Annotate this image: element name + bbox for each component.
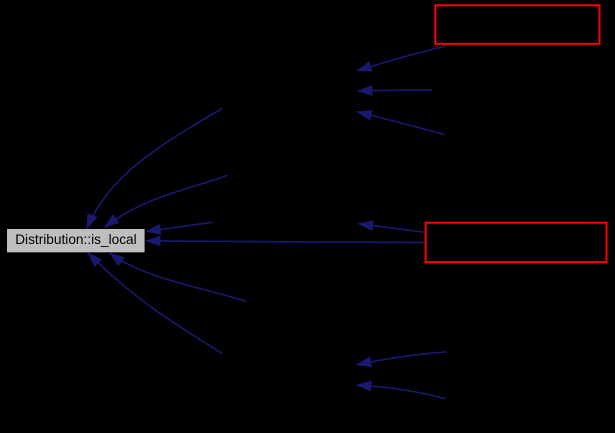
wire: edge to hidden node row 3 xyxy=(357,112,444,135)
svg-text:Distribution::is_local: Distribution::is_local xyxy=(15,231,137,247)
wire: edge from red box 1 to hidden node row 1 xyxy=(357,46,445,71)
wire: long edge G from red box 2 to Distribution::is_local right xyxy=(146,241,424,243)
wire: edge to Distribution::is_local bottom xyxy=(110,253,246,301)
node red box 1 (truncated caller, top right) xyxy=(435,5,599,44)
wire: edge I to hidden bottom node xyxy=(357,352,446,365)
wire: edge K from red box 2 to hidden middle node xyxy=(359,224,425,232)
wire: edge J to hidden bottom node xyxy=(357,385,446,398)
wire: horizontal edge to hidden node row 2 xyxy=(358,90,432,91)
wire: curved edge E to Distribution::is_local top xyxy=(105,175,228,227)
node Distribution::is_local (gray current node) xyxy=(7,229,145,252)
node red box 2 (truncated caller, middle right) xyxy=(426,223,607,262)
wire: curved edge D from hidden node to Distribution::is_local top xyxy=(87,109,222,229)
wire: curved edge H to Distribution::is_local bottom xyxy=(88,253,222,353)
wire: edge F to Distribution::is_local right xyxy=(146,222,212,231)
